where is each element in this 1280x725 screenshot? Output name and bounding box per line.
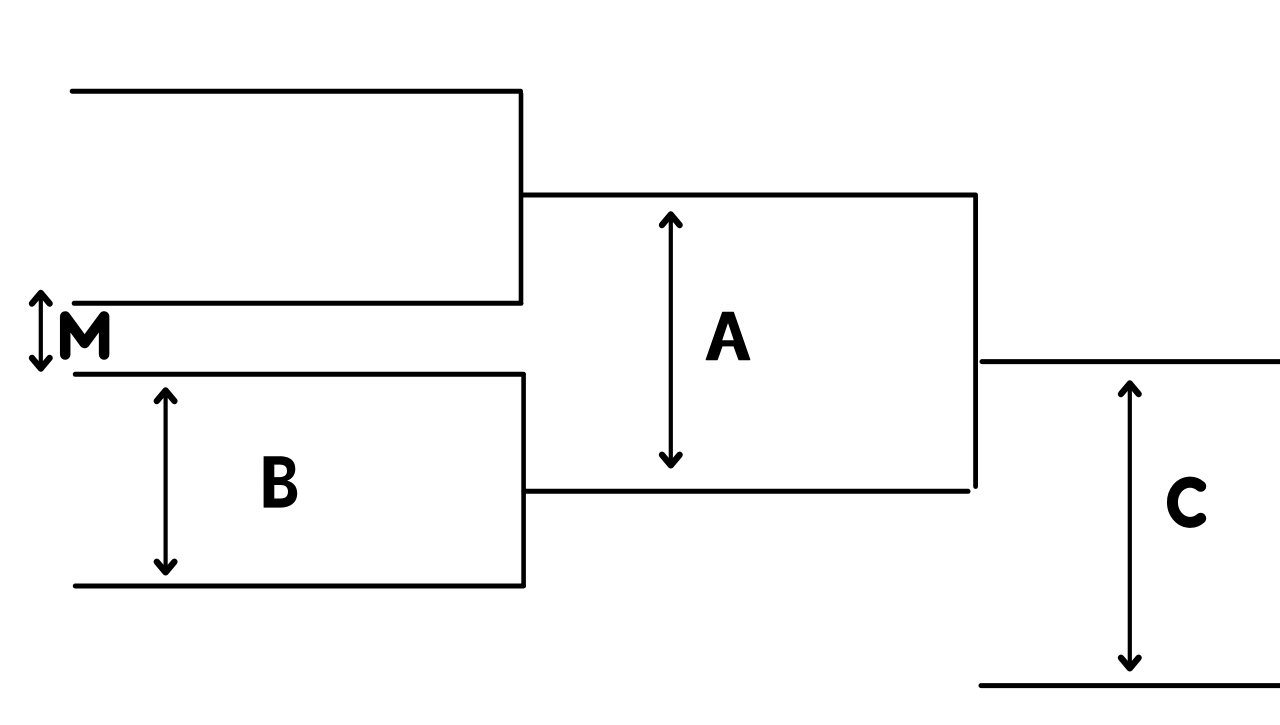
arrow B (double-headed vertical) <box>157 391 175 573</box>
wire second leaf line <box>74 301 521 306</box>
label M <box>65 317 104 355</box>
wire bottom right line <box>981 683 1280 688</box>
wire top leaf line <box>72 89 520 94</box>
arrow C (double-headed vertical) <box>1121 384 1139 669</box>
wire branch B horizontal <box>524 489 968 494</box>
wire left upper vertical connector <box>519 94 524 302</box>
label C <box>1172 482 1200 522</box>
wire right vertical connector <box>973 197 978 487</box>
wire B bracket bottom line <box>75 584 523 589</box>
arrow A (double-headed vertical) <box>662 215 680 466</box>
wire branch A horizontal <box>522 193 976 198</box>
wire output right line <box>982 359 1280 364</box>
arrow M (double-headed vertical) <box>32 293 50 369</box>
label B <box>264 456 298 507</box>
wire B bracket vertical <box>521 376 526 585</box>
wire B bracket top line <box>75 372 523 377</box>
label A <box>706 312 749 359</box>
